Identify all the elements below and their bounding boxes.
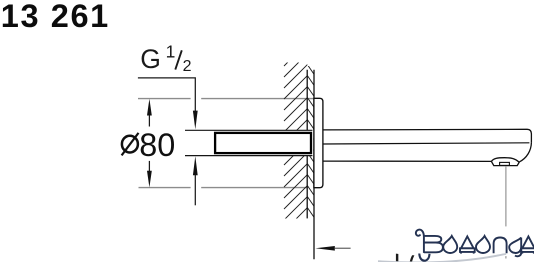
pipe threaded body (bold) (215, 133, 311, 153)
wall flange (314, 98, 323, 187)
170 dimension arrow (left) (315, 246, 334, 251)
watermark white halo blob (352, 226, 534, 257)
leader arrow down to pipe top (193, 111, 198, 130)
wall hatching (284, 43, 307, 242)
aerator dome (491, 158, 519, 162)
spout mid edge (323, 143, 530, 144)
dimension arrow up (147, 99, 152, 116)
dimension arrow down (147, 171, 152, 188)
wall right line + extension down to dimension (313, 70, 315, 260)
lower arrow stem (194, 175, 196, 205)
aerator mousseur inset (500, 162, 510, 165)
aerator body (491, 161, 519, 165)
watermark letter p (494, 238, 507, 254)
watermark letter o (drop) (443, 236, 457, 253)
dimension text O80: diameter symbol (122, 133, 139, 156)
svg-text:G: G (140, 44, 161, 74)
extension line top (flange top) (138, 98, 314, 100)
svg-text:1: 1 (166, 41, 176, 61)
label G 1/2 (140, 41, 191, 75)
pipe interior mask (wall hole) (185, 130, 313, 156)
spout underside tip curve (519, 143, 531, 162)
extension line bottom (flange bottom) (139, 187, 308, 189)
pipe thin outline (185, 130, 312, 155)
spout top edge (323, 129, 532, 142)
watermark letter o (drop) (476, 236, 490, 253)
spout bottom edge (323, 160, 492, 162)
wall left line (306, 70, 308, 219)
svg-text:80: 80 (139, 127, 175, 163)
170 dimension tail (335, 247, 351, 249)
watermark letter V (hook + B) (416, 230, 443, 253)
watermark curl under B (looks like 0 of 170) (419, 254, 429, 261)
dimension line O80 upper part (148, 108, 150, 127)
wall hatching inner strip (307, 43, 314, 229)
lower arrow up to pipe bottom (193, 156, 198, 175)
leader line for G 1/2 (138, 78, 195, 111)
watermark letter d (triangle+base) (460, 236, 475, 253)
dimension line O80 lower part (148, 161, 150, 175)
svg-text:2: 2 (183, 58, 192, 75)
watermark letter a (drop + stem) (509, 238, 521, 257)
watermark letter d (triangle+base, right edge) (521, 236, 534, 253)
extension line from aerator down (505, 167, 507, 259)
svg-text:13 261: 13 261 (1, 0, 110, 34)
watermark swoosh (378, 254, 506, 262)
